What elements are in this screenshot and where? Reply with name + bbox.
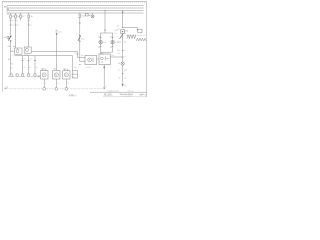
power rail 31 [7, 12, 144, 14]
tick RC2 [122, 56, 124, 58]
feed connector arrow mid [56, 29, 58, 31]
switch E1 circle [7, 36, 9, 38]
relay J31 box [85, 55, 97, 64]
lamp L1 pin ticks [100, 36, 102, 38]
motor box V3 [63, 71, 70, 79]
relay J31 coil circle [88, 58, 92, 62]
J32 lower mark [101, 61, 103, 63]
svg-text:1.0: 1.0 [117, 27, 120, 30]
svg-text:4: 4 [124, 55, 125, 58]
lamp H1 [91, 15, 94, 18]
svg-text:J31 Rel: J31 Rel [85, 66, 91, 69]
strip pin P5 [34, 74, 36, 76]
K1 inner tick [17, 48, 19, 50]
svg-text:0.5: 0.5 [8, 58, 11, 61]
svg-text:T2: T2 [24, 58, 26, 61]
rail junction S5 [79, 12, 80, 13]
svg-text:0.5: 0.5 [118, 52, 121, 55]
svg-text:A32: A32 [58, 30, 61, 33]
sheet top border [2, 0, 146, 2]
wire V3 ground [65, 79, 67, 88]
svg-text:K3: K3 [110, 36, 112, 39]
svg-text:Ausgabe 06.98: Ausgabe 06.98 [107, 89, 119, 92]
dashed connector strip [8, 75, 40, 77]
svg-text:T1: T1 [30, 24, 32, 27]
ground hook dot [7, 87, 8, 88]
svg-text:1: 1 [12, 37, 13, 40]
heater branch wire [123, 27, 138, 30]
svg-text:4: 4 [124, 49, 125, 52]
ground end hook [104, 87, 106, 89]
ground circle G3 [65, 87, 68, 90]
right switch lever [120, 34, 124, 39]
right switch inner dot [122, 31, 123, 32]
svg-text:V59: V59 [41, 67, 44, 70]
K2 inner circle [26, 49, 29, 52]
heater zigzag 2 [136, 38, 146, 41]
wire bus B [15, 56, 73, 71]
ground hook [4, 87, 6, 89]
switch E1 lever [8, 36, 11, 41]
svg-text:L9: L9 [103, 41, 105, 44]
svg-text:Z21: Z21 [123, 41, 126, 44]
svg-text:2x: 2x [117, 24, 119, 27]
arrow J32 [103, 67, 105, 70]
track underline [69, 95, 77, 97]
svg-text:1.5: 1.5 [124, 77, 127, 80]
tick F1a [77, 53, 79, 55]
svg-text:T2e: T2e [111, 54, 114, 57]
lamp loop right [112, 33, 114, 52]
switch E2 lever [78, 36, 81, 41]
wire E1 down [10, 42, 12, 75]
svg-text:W42-23: W42-23 [127, 89, 133, 92]
svg-text:J31: J31 [100, 51, 103, 54]
rail start tick [6, 6, 8, 14]
relay box K1 [15, 48, 22, 54]
bulb RC cross b [122, 63, 124, 65]
K1 inner circle [16, 50, 19, 53]
connector tick T3 [28, 24, 30, 26]
svg-text:T1: T1 [17, 24, 19, 27]
wire mid down [56, 36, 58, 71]
wire bus A [31, 52, 77, 58]
arrow RC end [122, 84, 124, 87]
connector box X4 [73, 71, 78, 78]
svg-text:Z20: Z20 [118, 41, 121, 44]
lamp L1 [99, 40, 103, 44]
strip pin P2 [16, 74, 18, 76]
bulb RC cross a [122, 63, 124, 65]
switch E1 mid mark [9, 38, 10, 39]
wire right drop [122, 11, 124, 29]
right switch box [121, 30, 125, 34]
motor box V1 [41, 71, 48, 79]
lamp loop bottom [101, 51, 113, 53]
fuse S3 drop [20, 13, 22, 15]
ground circle G2 [55, 87, 58, 90]
wire into K relay upper [78, 57, 86, 59]
fuse S2 drop [15, 13, 17, 15]
svg-text:31: 31 [124, 84, 126, 87]
connector tick T1 [10, 24, 12, 26]
wire J31-J32 [97, 58, 99, 60]
svg-text:Scheibenwascher: Scheibenwascher [121, 96, 133, 98]
bulb RC [121, 62, 124, 65]
switch E2 contact b [79, 41, 80, 42]
lamp loop left [100, 33, 102, 54]
motor V3 circle [64, 73, 68, 77]
junction right drop [122, 11, 123, 12]
heater zigzag 1 [127, 35, 136, 39]
sheet left border [1, 1, 3, 92]
lamp loop top [101, 32, 113, 34]
svg-text:A97·1: A97·1 [140, 93, 147, 96]
heater branch junction [122, 27, 123, 28]
svg-text:86: 86 [81, 54, 83, 57]
wire V2 ground [55, 79, 57, 88]
heater element box [138, 29, 142, 33]
drop E tick [104, 29, 106, 31]
fuse S4 drop [28, 13, 30, 15]
tick S5 [79, 22, 81, 24]
strip end circle [38, 75, 40, 77]
switch E1 contact b [10, 40, 11, 41]
relay J31 bar [92, 57, 94, 62]
fuse S2 [15, 15, 17, 18]
tick RC1 [122, 50, 124, 52]
junction drop E [104, 10, 105, 11]
svg-text:ws: ws [13, 45, 15, 48]
drop D3 [34, 56, 36, 74]
fuse S1 drop [10, 13, 12, 15]
fuse S4 [28, 15, 30, 18]
svg-text:V11: V11 [53, 67, 56, 70]
wire S4 down [28, 18, 30, 47]
svg-text:K2: K2 [98, 36, 100, 39]
drop D2 [28, 56, 30, 74]
svg-text:V12: V12 [63, 67, 66, 70]
wire J32 ground [103, 65, 105, 89]
power rail X [7, 10, 144, 12]
wire S5 down [79, 18, 81, 62]
svg-text:1.0: 1.0 [114, 32, 116, 35]
strip pin P3 [22, 74, 24, 76]
power rail 15 [7, 7, 144, 9]
switch E2 contact a [79, 35, 80, 36]
wire into K relay lower [80, 61, 85, 63]
tick D3 [34, 60, 36, 62]
tick D1 [22, 60, 24, 62]
K2 inner tick [26, 47, 28, 49]
right switch stem [122, 34, 124, 40]
connector tick T2 [15, 24, 17, 26]
wire right column lower [122, 65, 124, 82]
contact box J [86, 13, 89, 16]
fuse S5 [79, 15, 81, 18]
svg-text:2: 2 [76, 33, 77, 36]
motor V2 circle [54, 73, 58, 77]
relay box K2 [24, 47, 31, 53]
strip pin P4 [28, 74, 30, 76]
motor box V2 [53, 71, 60, 79]
tick RC3 [122, 73, 124, 75]
switch E1 contact a [10, 36, 11, 37]
svg-text:T2: T2 [30, 58, 32, 61]
svg-text:b: b [73, 75, 74, 78]
X4 divider [73, 73, 78, 75]
svg-text:T1: T1 [12, 24, 14, 27]
tick F1b [79, 64, 81, 66]
title block top line [90, 91, 147, 93]
J32 bar [104, 57, 106, 61]
power rail 30 [7, 5, 144, 7]
heater dashed link [126, 34, 146, 36]
svg-text:E20: E20 [125, 29, 128, 32]
wire J32 right [110, 56, 122, 58]
drop D1 [22, 56, 24, 74]
title left underline [103, 95, 112, 97]
svg-text:a: a [73, 73, 74, 75]
motor V1 circle [42, 73, 46, 77]
wire drop E [104, 11, 106, 34]
wire S3 stub [20, 18, 22, 21]
wire V1 ground [43, 79, 45, 88]
wire right column [122, 40, 124, 62]
J32 lead [106, 57, 108, 59]
lamp L2 [111, 40, 115, 44]
ground dotted rail [8, 88, 105, 90]
fuse S1 [10, 15, 12, 18]
svg-text:E22: E22 [81, 38, 84, 41]
relay J31 coil dot [89, 59, 90, 60]
V1 pins [42, 69, 44, 71]
tick D2 [28, 60, 30, 62]
svg-text:T2: T2 [74, 52, 76, 55]
control box J32 [99, 54, 110, 65]
wire S1 down [10, 18, 12, 35]
wire S2 down [15, 18, 17, 48]
svg-text:0.5: 0.5 [124, 69, 127, 72]
lamp H1 wire [92, 13, 94, 15]
strip pin P1 [10, 74, 12, 76]
sheet right border [146, 1, 148, 97]
V3 pins [64, 69, 66, 71]
fuse S3 [20, 15, 22, 18]
svg-text:2: 2 [125, 33, 126, 36]
J32 coil circle [101, 57, 104, 60]
svg-text:3: 3 [76, 42, 77, 45]
svg-text:T2f: T2f [117, 49, 120, 52]
title block bottom line [103, 96, 147, 98]
ground circle G1 [43, 87, 46, 90]
svg-text:0.5: 0.5 [8, 45, 11, 48]
sheet top tick row [2, 2, 146, 4]
